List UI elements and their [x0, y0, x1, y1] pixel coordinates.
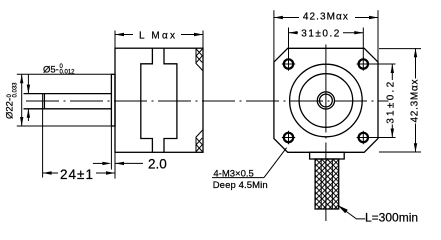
shaft end face — [43, 94, 45, 109]
dimension D5 leader — [27, 74, 29, 93]
dimension 42.3Max right vertical — [379, 48, 421, 50]
dimension L Max — [114, 31, 116, 49]
front view vertical centerline — [325, 45, 327, 222]
boss circle — [299, 74, 353, 128]
label D22 tolerance rotated — [5, 82, 19, 119]
stator stack spool profile — [141, 48, 177, 152]
dimension 31+-0.2 top — [288, 28, 290, 59]
dimension 24+-1 — [43, 172, 58, 174]
extension line boss bottom — [17, 125, 112, 127]
leader L=300min — [338, 205, 348, 213]
svg-text:2.0: 2.0 — [148, 156, 167, 171]
centerline main horizontal axis — [26, 100, 389, 102]
extension line boss top — [17, 73, 112, 75]
svg-text:Ø5-: Ø5- — [43, 65, 59, 76]
outer circle — [290, 64, 363, 137]
front boss (pilot) side view — [111, 74, 115, 126]
shaft circle — [320, 94, 333, 107]
mounting hole top-left — [282, 57, 295, 70]
svg-text:0.012: 0.012 — [60, 70, 76, 76]
svg-text:Ø22-: Ø22- — [5, 98, 16, 119]
leader to bottom-left hole — [264, 148, 287, 178]
front view square with chamfers — [274, 48, 378, 152]
motor body side view outline — [115, 48, 203, 152]
shaft — [24, 93, 112, 95]
svg-text:42.3Mαx: 42.3Mαx — [303, 12, 348, 23]
mounting hole bottom-left — [282, 131, 295, 144]
mounting hole top-right — [357, 57, 370, 70]
extension flange face down — [114, 152, 116, 178]
dimension 42.3Max top — [273, 10, 275, 62]
rear cover corner section top-right — [196, 48, 203, 71]
dimension 31+-0.2 right vertical — [370, 63, 396, 65]
shaft chamfer circle — [317, 92, 334, 109]
extension line shaft end — [42, 94, 44, 178]
dimension 2.0 — [93, 162, 108, 164]
svg-text:Deep 4.5Min: Deep 4.5Min — [213, 180, 268, 191]
dimension D22 vertical — [21, 74, 23, 126]
svg-text:0.033: 0.033 — [12, 82, 18, 98]
extension boss face down — [110, 126, 112, 170]
mounting hole bottom-right — [357, 131, 370, 144]
rear cover corner section bottom-right — [196, 130, 203, 153]
cable strain relief plate — [310, 152, 345, 159]
svg-text:L=300min: L=300min — [365, 211, 418, 225]
svg-text:24±1: 24±1 — [60, 167, 93, 182]
svg-text:42.3Mαx: 42.3Mαx — [410, 80, 421, 123]
